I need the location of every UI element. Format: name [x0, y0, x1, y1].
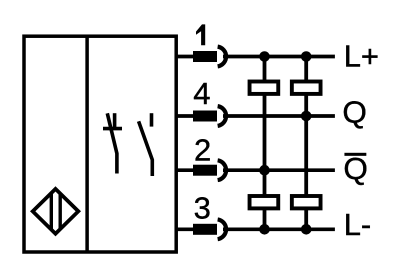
svg-text:4: 4 [193, 76, 210, 111]
load resistor box top-right [292, 82, 321, 94]
overbar of Qbar [345, 153, 367, 156]
svg-text:Q: Q [342, 94, 367, 129]
svg-text:L-: L- [344, 207, 372, 242]
svg-text:2: 2 [194, 132, 211, 167]
pin 4 wire left [176, 114, 194, 118]
inductive sensor diamond [33, 189, 79, 234]
junction dot L+ left [259, 51, 270, 62]
diamond right chord [59, 194, 62, 230]
svg-text:L+: L+ [344, 39, 379, 74]
pin 4 socket arc [218, 106, 226, 126]
pin number 1 (drawn, Arial-style without foot) [196, 24, 205, 45]
right bus vertical [304, 57, 308, 230]
NC contact stub [113, 113, 117, 128]
sensor body outline [24, 36, 176, 252]
pin 2 plug rect [193, 165, 217, 176]
wire L- [223, 227, 335, 231]
pin 4 plug rect [193, 111, 217, 122]
pin 2 wire left [176, 168, 194, 172]
compartment divider [85, 36, 89, 252]
junction dot Qbar left [259, 165, 270, 176]
svg-text:Q: Q [343, 151, 368, 186]
pin 2 socket arc [218, 160, 226, 180]
NC contact bar [103, 127, 122, 131]
load resistor box bottom-left [250, 196, 279, 208]
pin 3 socket arc [218, 219, 226, 239]
pin 3 wire left [176, 227, 194, 231]
junction dot L+ right [301, 51, 312, 62]
load resistor box top-left [250, 82, 279, 94]
junction dot L- left [259, 224, 270, 235]
NO contact stub [150, 113, 154, 126]
wire L+ [223, 55, 335, 59]
pin 1 wire left [176, 55, 194, 59]
NO contact arm [139, 121, 153, 176]
load resistor box bottom-right [292, 196, 321, 208]
svg-text:3: 3 [194, 190, 211, 225]
pin 1 socket arc [218, 47, 226, 67]
pin 1 plug rect [193, 51, 217, 62]
NC contact arm [107, 113, 117, 173]
left bus vertical [263, 57, 267, 230]
diamond left chord [50, 193, 53, 229]
pin 3 plug rect [193, 224, 217, 235]
junction dot Q right [301, 111, 312, 122]
wire Q [223, 114, 335, 118]
junction dot L- right [301, 224, 312, 235]
wire Qbar [223, 168, 335, 172]
